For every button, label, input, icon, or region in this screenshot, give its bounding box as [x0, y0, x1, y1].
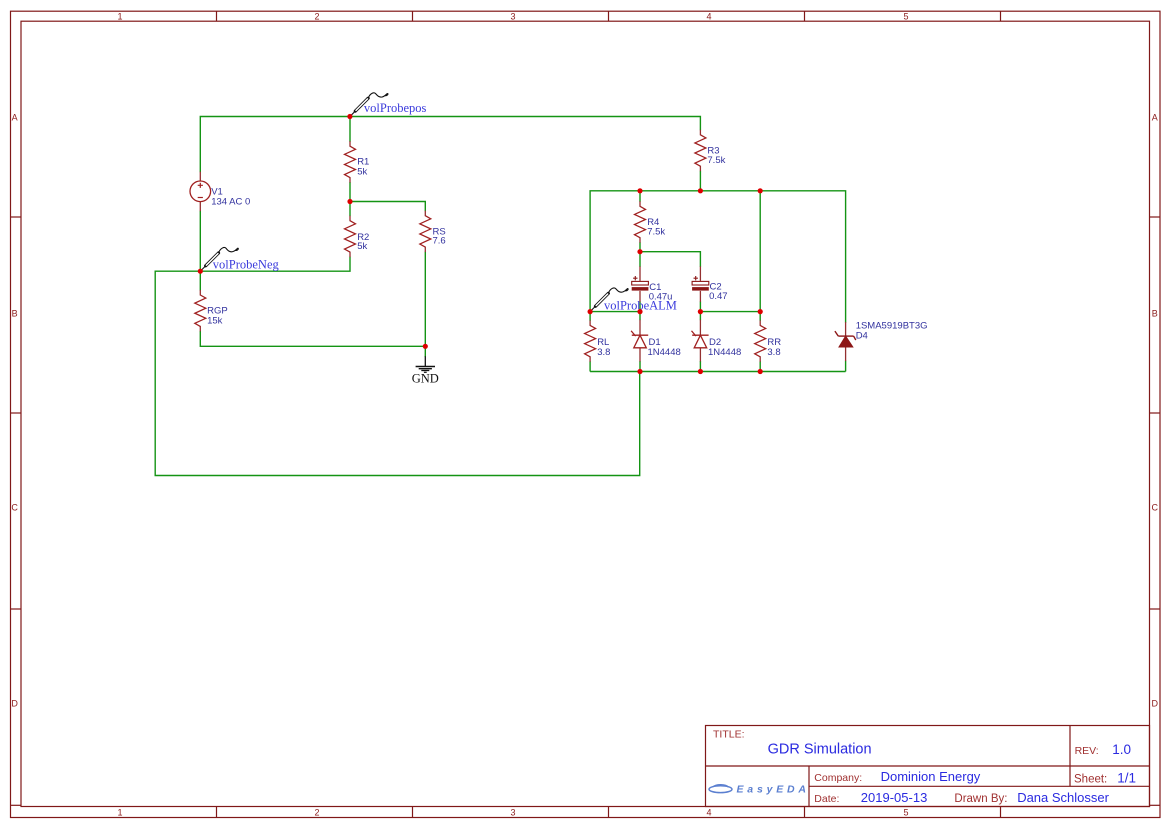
svg-text:5: 5 — [903, 807, 908, 817]
junction rail RR — [758, 369, 763, 374]
svg-text:REV:: REV: — [1075, 745, 1099, 757]
svg-text:7.5k: 7.5k — [707, 155, 725, 166]
svg-text:5k: 5k — [357, 166, 367, 177]
junction RR top — [758, 309, 763, 314]
wire V1 bottom to volProbeNeg — [199, 211, 201, 272]
ground GND symbol — [416, 356, 435, 372]
wire D2 bottom — [699, 361, 701, 372]
wire RL bottom — [589, 361, 591, 371]
svg-text:3: 3 — [510, 12, 515, 22]
diode D1 — [631, 320, 648, 362]
junction bus R3 — [698, 188, 703, 193]
junction bus R4 — [637, 188, 642, 193]
svg-text:B: B — [1152, 309, 1158, 319]
diode D2 — [692, 320, 709, 362]
svg-text:C: C — [11, 503, 18, 513]
wire RGP top — [199, 271, 201, 290]
svg-text:2: 2 — [314, 12, 319, 22]
wire RGP bottom to GND row — [200, 331, 425, 346]
wire R3 bottom to bus — [699, 171, 701, 191]
svg-text:15k: 15k — [207, 315, 223, 326]
wire D2 top — [699, 312, 701, 321]
resistor R1 — [345, 141, 356, 182]
wire R4 bottom to C2 top — [640, 252, 700, 267]
svg-text:0.47: 0.47 — [709, 291, 728, 302]
junction R4-C1 — [637, 249, 642, 254]
wire R2 bottom to volProbeNeg row — [155, 257, 640, 476]
wire R1 to R2 — [349, 182, 351, 216]
svg-text:5: 5 — [903, 12, 908, 22]
junction volProbeALM — [588, 309, 593, 314]
svg-text:D: D — [11, 699, 18, 709]
wire volProbepos to R1 — [349, 117, 351, 142]
wire C1 bottom to node ALM — [639, 302, 641, 312]
svg-text:C: C — [1152, 503, 1159, 513]
wire D1 top — [639, 312, 641, 321]
svg-text:GND: GND — [412, 372, 439, 386]
resistor RL — [585, 320, 596, 361]
resistor RS — [420, 211, 431, 252]
svg-text:5k: 5k — [357, 241, 367, 252]
svg-text:3: 3 — [510, 807, 515, 817]
net probe volProbeNeg icon — [201, 248, 238, 271]
svg-text:3.8: 3.8 — [767, 347, 780, 358]
svg-text:A: A — [12, 113, 18, 123]
svg-text:134 AC 0: 134 AC 0 — [211, 197, 250, 208]
wire bus node top horizontal — [590, 191, 846, 323]
svg-text:1N4448: 1N4448 — [648, 347, 681, 358]
wire D1 bottom — [639, 361, 641, 372]
wire RR column — [759, 191, 761, 321]
junction C2-D2 — [698, 309, 703, 314]
junction R1-R2-RS — [347, 199, 352, 204]
svg-text:Date:: Date: — [814, 793, 839, 805]
svg-text:D4: D4 — [856, 331, 868, 342]
svg-text:Dominion Energy: Dominion Energy — [881, 769, 981, 784]
wire RR bottom — [759, 361, 761, 371]
wire D4 bottom — [845, 361, 847, 372]
svg-text:2019-05-13: 2019-05-13 — [861, 790, 928, 805]
wire RL column — [589, 312, 591, 321]
svg-text:2: 2 — [314, 807, 319, 817]
junction C1-D1 — [637, 309, 642, 314]
resistor RGP — [195, 290, 206, 331]
capacitor C2 — [692, 266, 709, 302]
svg-text:7.6: 7.6 — [433, 236, 446, 247]
junction volProbeNeg — [198, 269, 203, 274]
wire C2 node to RR node — [700, 311, 760, 313]
zener diode D4 — [835, 322, 856, 361]
svg-text:Sheet:: Sheet: — [1074, 773, 1107, 785]
junction volProbepos — [347, 114, 352, 119]
wire bottom rail — [590, 371, 846, 373]
svg-text:volProbeNeg: volProbeNeg — [213, 258, 280, 272]
junction rail D2 — [698, 369, 703, 374]
svg-text:GDR Simulation: GDR Simulation — [768, 742, 872, 758]
svg-text:1.0: 1.0 — [1112, 742, 1131, 757]
svg-text:A: A — [1152, 113, 1158, 123]
svg-text:4: 4 — [706, 807, 711, 817]
svg-text:Dana Schlosser: Dana Schlosser — [1017, 790, 1109, 805]
svg-text:4: 4 — [706, 12, 711, 22]
svg-text:1/1: 1/1 — [1117, 770, 1136, 785]
wire GND stub — [424, 346, 426, 357]
svg-text:B: B — [12, 309, 18, 319]
svg-text:1: 1 — [117, 12, 122, 22]
resistor R4 — [635, 201, 646, 242]
svg-text:Company:: Company: — [814, 772, 862, 784]
wire R4 column — [639, 191, 641, 202]
wire RS bottom vertical — [424, 252, 426, 347]
wire top net volProbepos horizontal — [200, 117, 700, 173]
svg-text:EasyEDA: EasyEDA — [737, 784, 810, 796]
svg-text:TITLE:: TITLE: — [713, 729, 745, 741]
resistor RR — [755, 320, 766, 361]
junction rail D1 — [637, 369, 642, 374]
capacitor C1 — [632, 266, 649, 302]
resistor R3 — [695, 130, 706, 171]
svg-text:Drawn By:: Drawn By: — [954, 793, 1007, 805]
wire C2 bottom — [699, 302, 701, 312]
net probe volProbepos icon — [351, 93, 388, 116]
junction bus RR — [758, 188, 763, 193]
resistor R2 — [345, 216, 356, 257]
net probe volProbeALM icon — [591, 288, 628, 311]
svg-text:7.5k: 7.5k — [647, 227, 665, 238]
voltage source V1 — [190, 172, 211, 212]
svg-text:D: D — [1152, 699, 1159, 709]
wire R4 to C1 — [639, 242, 641, 267]
junction GND node — [423, 344, 428, 349]
svg-text:volProbepos: volProbepos — [364, 101, 427, 115]
svg-text:1N4448: 1N4448 — [708, 347, 741, 358]
wire volProbeALM to C1 node — [590, 311, 640, 313]
wire node R1-R2-RS horizontal — [350, 202, 425, 212]
svg-text:3.8: 3.8 — [597, 347, 610, 358]
svg-text:1: 1 — [117, 807, 122, 817]
